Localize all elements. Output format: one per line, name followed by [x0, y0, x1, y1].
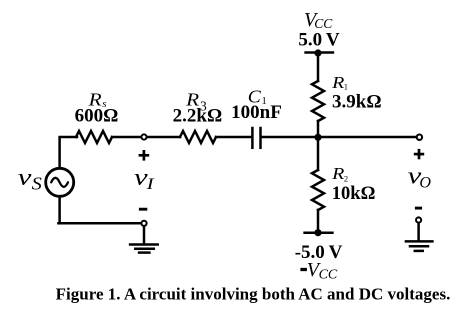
svg-text:3.9kΩ: 3.9kΩ — [332, 92, 382, 113]
wire: R2 to -VCC — [317, 210, 320, 233]
svg-text:O: O — [419, 175, 431, 192]
ground bar 1 (right ground) — [406, 240, 433, 243]
source vS lead bottom — [58, 198, 61, 224]
svg-text:10kΩ: 10kΩ — [332, 184, 376, 204]
svg-text:I: I — [145, 176, 154, 193]
label vO — [408, 163, 432, 191]
label C1 — [248, 87, 267, 108]
minus sign at vI — [139, 208, 147, 211]
wire: VCC to R1 — [317, 53, 320, 81]
capacitor C1 right plate — [259, 128, 262, 148]
svg-text:S: S — [32, 173, 42, 193]
label R3 — [185, 89, 207, 113]
wire: R1 to mid node — [317, 121, 320, 137]
node vO plus terminal (open circle) — [417, 135, 422, 140]
svg-text:100nF: 100nF — [231, 102, 282, 123]
svg-text:v: v — [18, 165, 32, 191]
label -VCC — [300, 259, 338, 282]
wire: bottom rail to vI minus node — [58, 222, 141, 225]
resistor R3 zigzag — [180, 131, 216, 143]
svg-text:Figure 1. A circuit involving: Figure 1. A circuit involving both AC an… — [56, 285, 451, 304]
svg-text:5.0 V: 5.0 V — [298, 30, 340, 51]
resistor Rs zigzag — [76, 131, 112, 143]
ground bar 3 (left ground) — [139, 251, 149, 254]
plus sign at vI — [139, 150, 150, 161]
label R1 — [331, 73, 348, 92]
node vO minus terminal (open circle) — [416, 217, 421, 222]
resistor R1 zigzag — [312, 81, 324, 121]
label vI — [134, 165, 154, 193]
wire: mid node to R2 — [317, 137, 320, 170]
junction dot mid node — [314, 134, 321, 141]
svg-text:600Ω: 600Ω — [75, 105, 119, 126]
svg-text:1: 1 — [344, 82, 348, 92]
node vI plus terminal (open circle) — [141, 134, 146, 139]
source vS circle — [46, 168, 74, 196]
junction dot at -VCC — [314, 229, 321, 236]
label R2 — [331, 164, 348, 184]
ground bar 3 (right ground) — [415, 250, 423, 253]
ground bar 2 (right ground) — [410, 245, 428, 248]
svg-text:2: 2 — [344, 174, 348, 184]
source vS sine wave — [51, 178, 68, 187]
svg-text:2.2kΩ: 2.2kΩ — [173, 105, 223, 126]
svg-text:CC: CC — [319, 267, 338, 282]
resistor R2 zigzag — [312, 170, 324, 210]
wire: R3 to capacitor C1 — [216, 136, 251, 139]
wire: top rail from source to Rs — [60, 137, 77, 167]
ground lead below vI node — [143, 227, 146, 244]
capacitor C1 left plate — [251, 128, 254, 148]
label VCC — [304, 9, 333, 31]
wire: C1 to output node — [262, 136, 417, 139]
plus sign at vO — [414, 149, 424, 159]
wire: Rs to R3 — [112, 136, 180, 139]
node vI minus terminal (open circle) — [141, 221, 146, 226]
ground lead below vO minus — [417, 223, 420, 241]
VCC supply bar — [306, 51, 333, 54]
ground bar 1 (left ground) — [130, 243, 158, 246]
label vS — [18, 165, 42, 193]
minus sign at vO — [415, 207, 422, 210]
negative VCC supply bar — [305, 231, 333, 234]
label Rs — [88, 89, 107, 110]
junction dot at VCC — [314, 49, 321, 56]
ground bar 2 (left ground) — [135, 247, 154, 250]
